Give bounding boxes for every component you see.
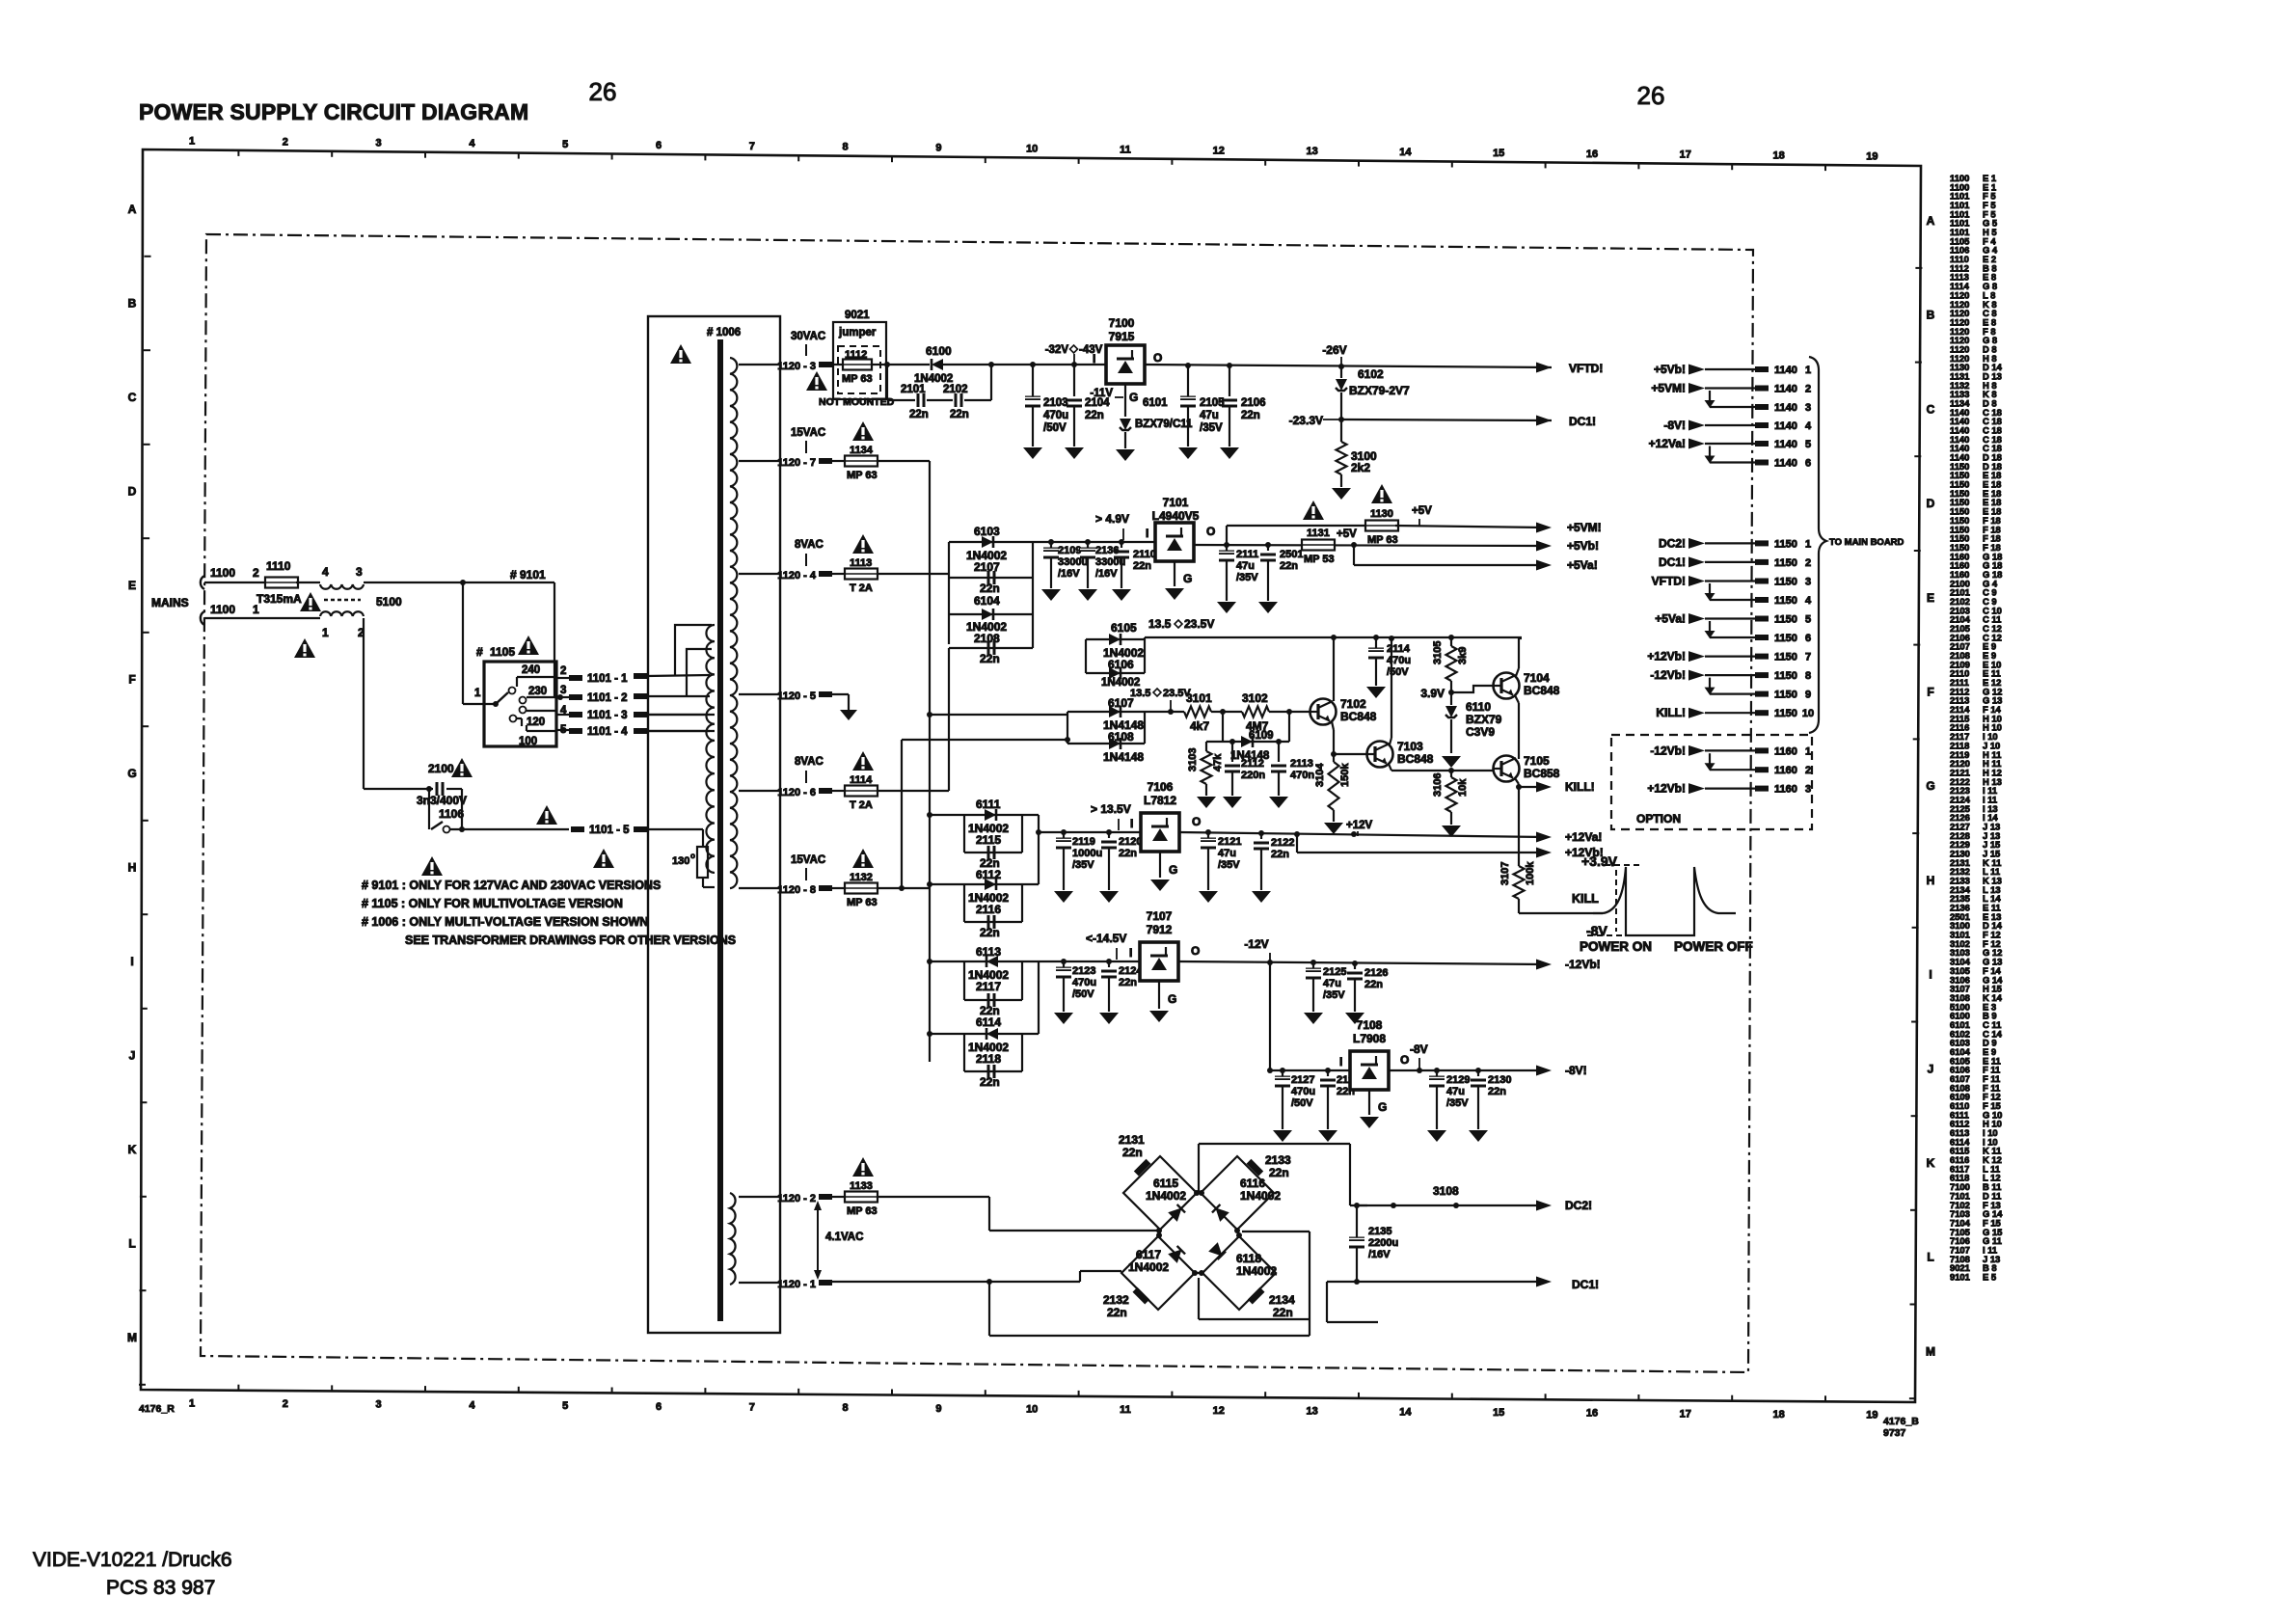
svg-text:/35V: /35V [1200, 422, 1223, 434]
svg-text:1150: 1150 [1774, 670, 1797, 682]
svg-text:22n: 22n [1133, 560, 1151, 572]
capacitor 2127 470u/50V [1282, 1070, 1283, 1076]
wire 1133 to bridge [988, 1197, 990, 1231]
svg-text:DC2!: DC2! [1565, 1199, 1592, 1212]
svg-text:6111: 6111 [976, 798, 1001, 811]
svg-text:15: 15 [1493, 1407, 1504, 1419]
svg-text:22n: 22n [1119, 848, 1137, 859]
diode group 6105-6108 left rails [1085, 639, 1087, 673]
svg-text:2114: 2114 [1387, 643, 1411, 655]
wire 7100 output [1145, 365, 1552, 367]
svg-text:470n: 470n [1290, 770, 1314, 781]
svg-text:8VAC: 8VAC [795, 756, 824, 768]
svg-text:2127: 2127 [1291, 1074, 1314, 1086]
ground under 2105 [1178, 447, 1198, 459]
svg-text:3102: 3102 [1242, 691, 1268, 705]
ground under 2113 [1269, 797, 1288, 808]
svg-text:47u: 47u [1218, 848, 1236, 859]
secondary tap 1120-4 [739, 573, 779, 575]
svg-text:4k7: 4k7 [1190, 719, 1209, 733]
capacitor 2110 22n [1121, 542, 1122, 548]
wire choke to selector [364, 582, 554, 583]
svg-text:POWER SUPPLY CIRCUIT DIAGRAM: POWER SUPPLY CIRCUIT DIAGRAM [139, 99, 528, 124]
svg-text:1140: 1140 [1774, 402, 1797, 414]
svg-text:5: 5 [562, 1400, 568, 1412]
capacitor 2133 22n [1247, 1159, 1264, 1177]
svg-text:VIDE-V10221 /Druck6: VIDE-V10221 /Druck6 [33, 1549, 232, 1571]
svg-text:MAINS: MAINS [151, 596, 189, 609]
svg-text:1N4002: 1N4002 [1146, 1189, 1186, 1203]
svg-text:F: F [128, 673, 135, 687]
svg-text:DC2!: DC2! [1659, 536, 1686, 550]
ground under 2119 [1054, 891, 1073, 903]
capacitor 2105 47u/35V [1187, 365, 1189, 396]
svg-text:10: 10 [1026, 1404, 1038, 1416]
ground under 2124 [1099, 1013, 1119, 1024]
svg-text:J: J [1928, 1062, 1934, 1075]
svg-text:2134: 2134 [1269, 1293, 1295, 1307]
svg-text:3: 3 [1805, 402, 1811, 414]
ground under 2103 [1023, 447, 1042, 459]
svg-text:> 4.9V: > 4.9V [1095, 512, 1129, 526]
resistor 3107 100k [1518, 787, 1520, 866]
svg-text:1160: 1160 [1774, 784, 1797, 796]
svg-text:+12Va!: +12Va! [1565, 830, 1602, 844]
svg-text:47u: 47u [1200, 410, 1219, 421]
svg-text:2101: 2101 [901, 384, 926, 395]
wire bridge bottom node [1198, 1278, 1200, 1319]
svg-text:6100: 6100 [926, 344, 952, 358]
svg-text:O: O [1192, 815, 1201, 828]
svg-text:G: G [127, 767, 136, 780]
wire -12V down to 7108 [1269, 962, 1271, 1070]
svg-text:2112: 2112 [1241, 758, 1264, 770]
output arrow KILL! [1536, 782, 1552, 793]
svg-text:22n: 22n [980, 926, 1000, 939]
svg-text:# 1006 : ONLY MULTI-VOLTAGE VE: # 1006 : ONLY MULTI-VOLTAGE VERSION SHOW… [362, 915, 648, 929]
svg-text:470u: 470u [1387, 655, 1411, 666]
bus 1134 vertical [929, 461, 931, 1062]
svg-text:/16V: /16V [1368, 1249, 1391, 1260]
svg-text:1150: 1150 [1774, 652, 1797, 663]
svg-text:22n: 22n [1364, 979, 1383, 990]
svg-text:BC848: BC848 [1524, 684, 1560, 697]
ground under 2130 [1469, 1130, 1488, 1142]
svg-text:5: 5 [1805, 614, 1811, 626]
resistor 3101 4k7 [1184, 707, 1211, 717]
svg-text:12: 12 [1213, 1405, 1225, 1417]
capacitor 2136 3300u/16V [1087, 542, 1089, 548]
svg-text:22n: 22n [909, 409, 929, 420]
svg-text:/35V: /35V [1323, 989, 1345, 1001]
warning symbol above 1133 [852, 1157, 874, 1177]
svg-text:+5VM!: +5VM! [1651, 382, 1686, 395]
wire DC1 line [1354, 1279, 1360, 1285]
ground under 2104 [1065, 447, 1084, 459]
svg-text:jumper: jumper [838, 327, 877, 338]
svg-text:2130: 2130 [1488, 1074, 1511, 1086]
svg-text:1120 - 7: 1120 - 7 [777, 457, 816, 469]
svg-text:1160: 1160 [1774, 765, 1797, 776]
svg-text:C: C [1927, 402, 1935, 416]
wire 6113 group to 7107 [1038, 961, 1040, 1034]
wire 7106 output +12V rail [1179, 832, 1544, 837]
svg-text:230: 230 [528, 686, 547, 697]
mains terminal 1100-1 [201, 611, 204, 625]
svg-text:MP 63: MP 63 [847, 470, 878, 481]
svg-text:3: 3 [1805, 577, 1811, 588]
svg-text:VFTD!: VFTD! [1569, 362, 1603, 375]
svg-text:1: 1 [1805, 538, 1811, 550]
svg-text:+12Vb!: +12Vb! [1647, 650, 1686, 663]
svg-text:B: B [128, 297, 137, 311]
svg-text:POWER ON: POWER ON [1580, 939, 1652, 954]
ground under 2136 [1078, 589, 1097, 601]
wire 1112 to 7100 [884, 362, 890, 367]
line filter choke 5100 [320, 584, 364, 589]
svg-text:C: C [128, 391, 137, 404]
svg-text:4.1VAC: 4.1VAC [825, 1232, 863, 1243]
svg-text:100: 100 [519, 736, 537, 747]
wire 7102 emitter to 7103 [1332, 721, 1334, 730]
svg-text:2133: 2133 [1265, 1153, 1291, 1167]
warning symbol below choke [294, 638, 315, 658]
svg-text:<-14.5V: <-14.5V [1086, 932, 1126, 945]
svg-text:DC1!: DC1! [1572, 1278, 1599, 1291]
transistor 7102 BC848 [1310, 699, 1337, 725]
svg-text:T315mA: T315mA [257, 592, 302, 606]
svg-text:1120 - 3: 1120 - 3 [777, 361, 816, 372]
svg-text:# 9101: # 9101 [510, 568, 546, 582]
svg-text:KILL!: KILL! [1656, 706, 1686, 719]
svg-text:4176_R: 4176_R [139, 1403, 175, 1415]
svg-text:+5Va!: +5Va! [1655, 612, 1686, 626]
svg-text:F: F [1927, 686, 1933, 699]
svg-text:470u: 470u [1291, 1086, 1315, 1097]
ground under 2112 [1223, 797, 1242, 808]
fuse 1112 MP63 [830, 364, 844, 365]
capacitor 2106 22n [1229, 365, 1230, 396]
svg-text:2105: 2105 [1200, 397, 1225, 409]
svg-text:E 5: E 5 [1983, 1272, 1996, 1283]
svg-text:2115: 2115 [976, 833, 1001, 847]
wire bridge plus to DC2 [1198, 1144, 1200, 1193]
resistor 3105 3k9 [1450, 637, 1452, 646]
regulator 7107 ground pin [1158, 981, 1160, 1009]
svg-text:/50V: /50V [1387, 666, 1409, 678]
svg-text:-32V: -32V [1045, 344, 1069, 356]
transistor 7104 BC848 [1494, 673, 1520, 699]
svg-text:7: 7 [749, 141, 755, 152]
capacitor 2130 22n [1477, 1070, 1479, 1076]
svg-text:I: I [1093, 352, 1095, 365]
connector 1160 pin 2 [1710, 769, 1755, 771]
svg-text:G: G [1169, 863, 1177, 877]
svg-text:18: 18 [1772, 150, 1784, 162]
board outline dash-dot border [201, 234, 1753, 1372]
svg-text:13: 13 [1306, 1406, 1317, 1418]
svg-text:3: 3 [376, 1399, 382, 1411]
svg-text:16: 16 [1586, 1408, 1598, 1420]
svg-text:1134: 1134 [850, 445, 874, 456]
svg-text:2501: 2501 [1280, 549, 1303, 560]
svg-text:/16V: /16V [1095, 568, 1118, 580]
ground under 6110 [1442, 756, 1461, 768]
capacitor 2129 47u/35V [1436, 1070, 1438, 1076]
svg-text:47u: 47u [1236, 560, 1255, 572]
svg-text:10: 10 [1802, 708, 1814, 719]
fuse 1132 MP63 [830, 887, 846, 889]
warning symbol above 1114 [852, 751, 874, 771]
capacitor 2121 47u/35V [1207, 832, 1209, 838]
capacitor 2132 22n [1133, 1287, 1150, 1305]
svg-text:1114: 1114 [850, 774, 873, 786]
svg-text:22n: 22n [1269, 1166, 1289, 1179]
fuse 1133 MP63 [830, 1196, 846, 1198]
svg-text:1150: 1150 [1774, 633, 1797, 644]
connector 1101 pin 2 [556, 696, 569, 698]
svg-text:# 1105 : ONLY FOR MULTIVOLTAGE: # 1105 : ONLY FOR MULTIVOLTAGE VERSION [362, 897, 623, 910]
ground under 2123 [1054, 1013, 1073, 1024]
svg-text:1150: 1150 [1774, 538, 1797, 550]
fuse 1134 MP63 [830, 460, 846, 462]
svg-text:1120 - 6: 1120 - 6 [777, 787, 816, 798]
svg-text:BZX79/C11: BZX79/C11 [1135, 419, 1193, 430]
svg-text:2113: 2113 [1290, 758, 1313, 770]
svg-text:/50V: /50V [1072, 988, 1094, 1000]
bridge diamond bottom-right [1202, 1236, 1276, 1310]
svg-text:/35V: /35V [1236, 572, 1258, 583]
diode ladder 6103/2107 [948, 542, 950, 644]
svg-text:6101: 6101 [1143, 397, 1168, 409]
svg-text:-12Vb!: -12Vb! [1565, 958, 1601, 971]
to main board brace [1809, 357, 1826, 733]
svg-text:TO MAIN BOARD: TO MAIN BOARD [1829, 537, 1904, 548]
node 3.9V [1448, 690, 1454, 695]
ground under 2127 [1273, 1130, 1292, 1142]
capacitor 2114 470u/50V [1375, 637, 1377, 648]
wire mains top [204, 582, 267, 583]
svg-text:O: O [1400, 1053, 1409, 1067]
svg-text:I: I [1339, 1055, 1342, 1069]
svg-text:1106: 1106 [439, 807, 464, 821]
svg-text:2: 2 [1805, 557, 1811, 569]
selector tap 240 [517, 676, 556, 678]
wire 7107 output -12V rail [1178, 961, 1544, 964]
selector wiper [496, 692, 508, 704]
svg-text:MP 63: MP 63 [842, 373, 873, 385]
svg-text:22n: 22n [1280, 560, 1298, 572]
svg-text:1140: 1140 [1774, 420, 1797, 432]
wire 6111 group to 7106 [1038, 815, 1040, 884]
svg-text:1101 - 2: 1101 - 2 [587, 692, 628, 704]
svg-text:22n: 22n [1488, 1086, 1506, 1097]
connector 1150 pin 9 [1710, 692, 1755, 694]
svg-text:3: 3 [1805, 784, 1811, 796]
regulator 7106 ground pin [1159, 852, 1161, 878]
svg-text:3: 3 [356, 565, 363, 579]
svg-text:15: 15 [1493, 148, 1504, 159]
svg-text:2: 2 [283, 1398, 288, 1410]
+12Vb branch [1296, 834, 1298, 853]
svg-text:G: G [1168, 992, 1176, 1006]
ground under 2120 [1099, 891, 1119, 903]
output arrow +5Va! [1536, 560, 1552, 571]
svg-text:7101: 7101 [1163, 496, 1189, 509]
wire -23.3V to DC1 [1341, 420, 1552, 420]
secondary tap 1120-6 [739, 790, 779, 792]
regulator 7100 ground pin [1124, 384, 1126, 417]
svg-text:G: G [1378, 1100, 1387, 1114]
svg-text:3106: 3106 [1432, 773, 1444, 797]
ground under 2126 [1345, 1013, 1364, 1024]
svg-text:1150: 1150 [1774, 690, 1797, 701]
warning symbol above 1130 [1371, 484, 1392, 503]
svg-text:19: 19 [1866, 151, 1877, 163]
snubber 6109 branch [1222, 712, 1224, 742]
svg-text:+5V: +5V [1412, 505, 1432, 517]
capacitor 2122 22n [1260, 833, 1262, 839]
svg-text:2: 2 [1805, 765, 1811, 776]
svg-text:2120: 2120 [1119, 836, 1142, 848]
svg-text:4: 4 [469, 1399, 475, 1411]
svg-text:+5VM!: +5VM! [1567, 521, 1602, 534]
svg-text:6116: 6116 [1240, 1177, 1265, 1190]
svg-text:7103: 7103 [1397, 740, 1423, 753]
svg-text:2: 2 [1805, 384, 1811, 395]
svg-text:NOT MOUNTED: NOT MOUNTED [819, 396, 895, 408]
svg-text:130: 130 [672, 855, 689, 867]
warning symbol below 1106 [421, 856, 443, 876]
svg-text:13.5: 13.5 [1130, 688, 1150, 699]
svg-text:1130: 1130 [1370, 508, 1393, 520]
svg-text:2102: 2102 [943, 384, 968, 395]
svg-text:/35V: /35V [1446, 1097, 1469, 1109]
svg-text:1140: 1140 [1774, 439, 1797, 450]
warning symbol near 2100 [451, 758, 473, 777]
svg-text:8: 8 [843, 1402, 849, 1414]
capacitor 2104 22n [1073, 365, 1075, 396]
ground under 3103 [1197, 797, 1216, 808]
svg-text:-12V: -12V [1244, 937, 1268, 951]
svg-text:MP 63: MP 63 [847, 1205, 878, 1217]
svg-text:1105: 1105 [490, 645, 515, 659]
svg-text:1: 1 [1805, 745, 1811, 757]
svg-text:2109: 2109 [1058, 545, 1081, 556]
svg-text:1: 1 [1805, 365, 1811, 376]
resistor 3100 2k2 [1340, 420, 1342, 442]
svg-text:2122: 2122 [1271, 837, 1294, 849]
svg-text:2129: 2129 [1446, 1074, 1470, 1086]
svg-text:5: 5 [1805, 439, 1811, 450]
svg-text:6: 6 [1805, 633, 1811, 644]
svg-text:1100: 1100 [210, 603, 235, 616]
svg-text:2118: 2118 [976, 1052, 1001, 1066]
connector 1101 pin 3 [556, 714, 569, 716]
svg-text:J: J [129, 1049, 136, 1063]
ground under 6101 [1116, 449, 1135, 461]
svg-text:/16V: /16V [1058, 568, 1080, 580]
svg-text:L: L [1927, 1251, 1933, 1264]
ground under 2128 [1318, 1130, 1337, 1142]
svg-text:19: 19 [1866, 1410, 1877, 1421]
svg-text:I: I [1129, 946, 1132, 960]
svg-text:4: 4 [469, 138, 475, 149]
ground under 2129 [1427, 1130, 1446, 1142]
svg-text:1110: 1110 [266, 559, 291, 573]
connector 1150 pin 4 [1710, 599, 1755, 601]
capacitor 2102 22n [955, 393, 958, 407]
wire 7101 input rail [1033, 541, 1155, 543]
svg-text:9021: 9021 [845, 310, 870, 321]
diode 6103 1N4002 [982, 536, 993, 548]
ground under 3106 [1442, 826, 1461, 837]
wire 13.5V rail to kill circuit [1145, 636, 1522, 638]
transistor 7105 BC858 [1494, 756, 1520, 782]
capacitor 2124 22n [1108, 961, 1110, 967]
wire 7103 emitter [1389, 764, 1391, 771]
selector tap 100 [527, 730, 556, 732]
svg-text:4: 4 [1805, 420, 1812, 432]
svg-text:T 2A: T 2A [850, 799, 873, 811]
svg-text:3n3/400V: 3n3/400V [417, 794, 467, 807]
svg-text:6103: 6103 [974, 525, 1000, 538]
svg-text:1140: 1140 [1774, 384, 1797, 395]
svg-text:+5Vb!: +5Vb! [1654, 363, 1686, 376]
svg-text:M: M [1926, 1344, 1935, 1358]
zener 6101 BZX79/C11 [1120, 419, 1131, 430]
svg-text:+5V: +5V [1337, 528, 1357, 540]
transistor 7103 BC848 [1367, 742, 1393, 768]
svg-text:470u: 470u [1043, 410, 1068, 421]
wire 3.9V to 7104 base [1451, 686, 1493, 692]
svg-text:1N4002: 1N4002 [1236, 1264, 1277, 1278]
capacitor 2103 470u/50V [1032, 365, 1034, 396]
outer frame border [141, 149, 1921, 1402]
ground under 2111 [1217, 602, 1236, 613]
svg-text:1112: 1112 [845, 349, 867, 361]
svg-text:6105: 6105 [1111, 621, 1137, 635]
svg-text:K: K [1927, 1156, 1935, 1170]
svg-text:I: I [1146, 527, 1148, 540]
svg-text:1: 1 [189, 136, 195, 148]
output arrow VFTD! [1536, 363, 1552, 373]
ground under 2125 [1304, 1013, 1323, 1024]
ground under 7108 [1360, 1117, 1379, 1128]
svg-text:2119: 2119 [1072, 836, 1095, 848]
svg-text:# 1006: # 1006 [707, 327, 741, 338]
svg-text:2126: 2126 [1364, 967, 1388, 979]
svg-text:MP 63: MP 63 [847, 897, 878, 908]
svg-text:6: 6 [656, 140, 662, 151]
svg-text:3103: 3103 [1187, 748, 1199, 771]
svg-text:22n: 22n [1122, 1146, 1143, 1159]
svg-text:-43V: -43V [1079, 344, 1103, 356]
svg-text:2k2: 2k2 [1351, 461, 1370, 474]
svg-text:/35V: /35V [1218, 859, 1240, 871]
ground under 3100 [1332, 488, 1351, 500]
svg-text:1140: 1140 [1774, 365, 1797, 376]
warning symbol above 1134 [852, 421, 874, 441]
svg-text:1N4002: 1N4002 [1240, 1189, 1281, 1203]
wire 7102 collector [1333, 637, 1335, 701]
wire 1120-1 to bridge [830, 1281, 1080, 1283]
svg-text:2110: 2110 [1133, 549, 1156, 560]
svg-text:-8V!: -8V! [1663, 419, 1686, 432]
svg-text:3108: 3108 [1433, 1184, 1459, 1198]
svg-text:22n: 22n [1241, 410, 1260, 421]
svg-text:K: K [128, 1143, 137, 1156]
